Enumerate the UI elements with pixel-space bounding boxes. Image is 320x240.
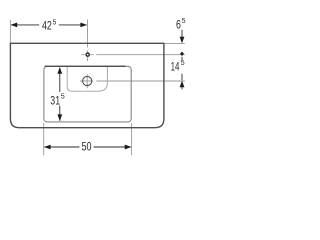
label 31.5: [49, 92, 68, 106]
faucet hole: [86, 53, 89, 56]
arrow down 31.5: [57, 114, 62, 121]
dimension line 50: [44, 146, 131, 148]
svg-text:5: 5: [61, 91, 65, 100]
svg-text:14: 14: [171, 60, 180, 74]
svg-text:5: 5: [182, 16, 186, 25]
dimension line 31.5 vertical: [59, 68, 61, 121]
basin back edge (dark top): [45, 65, 126, 67]
arrow up at drain line: [180, 81, 185, 88]
extension line left of 42.5 dim: [9, 20, 11, 43]
basin rim rounded rectangle: [44, 66, 131, 122]
arrow right 50: [125, 145, 132, 150]
leader line faucet center to right: [81, 54, 185, 56]
drain hole: [83, 76, 92, 85]
svg-text:6: 6: [176, 18, 181, 32]
extension line top edge to right (6.5 dim): [165, 43, 185, 45]
inner bowl outline: [67, 66, 107, 91]
washbasin outer outline: [10, 43, 164, 127]
svg-text:5: 5: [181, 58, 185, 67]
label 14.5: [170, 60, 187, 72]
dimension 14.5 line segments: [181, 57, 183, 90]
diamond marker at faucet line: [180, 52, 184, 56]
arrow left 42.5: [11, 23, 18, 28]
dimension line 42.5: [11, 24, 87, 26]
arrow left 50: [44, 145, 51, 150]
centerline vertical through faucet: [87, 20, 89, 62]
dimension 6.5 vertical line with down arrow: [181, 30, 183, 37]
svg-text:31: 31: [50, 93, 60, 107]
label 50: [79, 140, 93, 152]
label 42.5: [39, 19, 59, 32]
svg-text:50: 50: [82, 140, 92, 154]
leader line drain center to right: [80, 74, 185, 88]
arrow right 42.5: [80, 23, 87, 28]
svg-text:5: 5: [53, 18, 57, 27]
arrow up 31.5: [57, 67, 62, 74]
svg-text:42: 42: [42, 19, 52, 33]
extension lines of 50 dim: [44, 123, 132, 155]
